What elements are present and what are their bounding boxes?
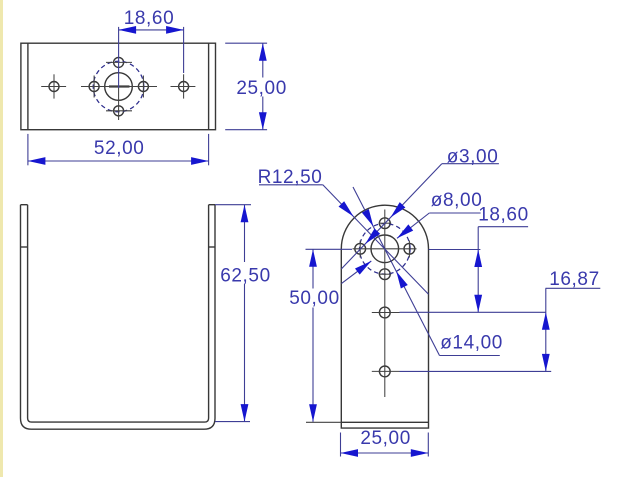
svg-text:ø8,00: ø8,00 (431, 190, 483, 211)
svg-text:50,00: 50,00 (289, 288, 340, 309)
svg-text:18,60: 18,60 (124, 8, 175, 29)
svg-text:25,00: 25,00 (236, 78, 287, 99)
svg-text:25,00: 25,00 (360, 428, 411, 449)
svg-text:ø3,00: ø3,00 (447, 147, 499, 168)
svg-text:18,60: 18,60 (478, 204, 529, 225)
svg-text:16,87: 16,87 (549, 269, 600, 290)
svg-text:ø14,00: ø14,00 (440, 333, 503, 354)
svg-text:52,00: 52,00 (94, 138, 145, 159)
svg-text:62,50: 62,50 (220, 266, 271, 287)
svg-text:R12,50: R12,50 (258, 167, 323, 188)
